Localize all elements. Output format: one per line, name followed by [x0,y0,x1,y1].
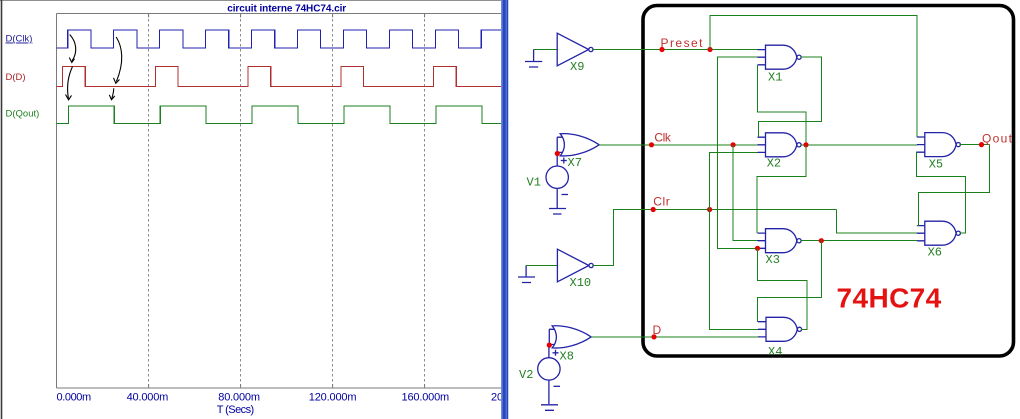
nand X6 [917,221,961,245]
wire Qout feedback down to X6 pin1 [917,145,990,226]
waveform D(D) red [57,66,502,86]
gridline 40m [148,14,150,388]
ground at X9 input [534,49,558,51]
svg-text:X9: X9 [570,60,584,74]
svg-text:V1: V1 [527,176,541,190]
svg-text:circuit interne 74HC74.cir: circuit interne 74HC74.cir [227,4,346,15]
window top border line [0,0,502,2]
svg-text:D(Clk): D(Clk) [6,34,33,45]
wire X3 out down to X4 pin1 [757,241,821,322]
svg-text:X8: X8 [560,350,574,364]
wire X5 out to Qout [960,144,990,146]
wire X3 out to X6 pin3 [800,240,916,242]
wire Clr jog to X6 pin2 [837,210,917,234]
svg-text:X7: X7 [568,156,582,170]
nand X3 [758,229,802,253]
plot border [57,14,502,389]
ground at V1 [549,209,566,215]
wire X7 out to Clk node [599,144,758,146]
svg-text:D(D): D(D) [6,72,26,83]
wire V2 to X8 inputs [549,329,550,345]
svg-text:Clr: Clr [653,195,670,209]
svg-text:160.000m: 160.000m [402,392,450,404]
wire X10 out to Clr line [593,210,836,266]
wire X3 pin3 down to X4 out [758,248,807,329]
or-gate X8 [549,326,591,348]
74HC74 outline box [643,6,1014,357]
annotation arrow 1 (Clk edge 1 to D) [69,35,75,63]
splitter bar [501,0,509,419]
wire X1 pin3 to X2 out [758,65,807,145]
wire X8 out to D node [591,336,758,338]
svg-text:X1: X1 [768,71,782,85]
svg-text:T (Secs): T (Secs) [217,404,255,416]
wire X1 pin2 net to X3 pin3 [718,57,758,248]
svg-text:74HC74: 74HC74 [837,283,942,314]
gridline 120m [332,14,334,388]
source V1 [546,154,568,209]
svg-text:D(Qout): D(Qout) [6,109,40,120]
svg-text:X3: X3 [766,253,780,267]
junction dot Clk a [649,142,654,147]
wire X2 out to X5 pin2 [800,144,916,146]
svg-text:X5: X5 [929,158,943,172]
junction dot Clr b [707,207,712,212]
annotation arrow 2 (D to Qout edge 1) [66,67,73,100]
svg-text:0.000m: 0.000m [57,392,92,404]
svg-text:40.000m: 40.000m [127,392,169,404]
ground at V2 [541,405,558,411]
or-gate X7 [557,134,599,156]
annotation arrow 4 (D to Qout edge 2) [109,88,115,99]
inverter X9 [557,33,593,66]
wire Preset riser to top and over to X5 pin1 [710,16,917,137]
junction dot X3 out [819,238,824,243]
top ticks [149,14,425,389]
svg-text:120.000m: 120.000m [309,392,357,404]
svg-text:X10: X10 [570,276,592,290]
window left border line [1,0,3,419]
junction dot X7 input [555,151,560,156]
junction dot Clr a [651,207,656,212]
junction dot X8 input [547,343,552,348]
annotation arrow 3 (Clk edge 2 to D) [114,37,122,83]
waveform D(Qout) green [57,106,502,124]
svg-text:V2: V2 [519,368,533,382]
nand X2 [758,133,802,157]
junction dot Preset b [707,47,712,52]
svg-text:80.000m: 80.000m [218,392,260,404]
wire X6 out up to X5 pin3 [916,152,965,233]
junction dot Clk b [731,142,736,147]
ground at X10 input [518,266,535,283]
junction dot Qout [979,142,984,147]
wire X2 pin3 to Clr [710,152,758,209]
junction dot D [651,334,656,339]
wire ground to X10 [526,265,557,267]
junction dot X3 pin3 [755,246,760,251]
wire V1 to X7 inputs [557,137,558,153]
svg-text:X2: X2 [767,157,781,171]
wire Clr riser down to X4 pin2 [710,210,758,330]
wire X9 out to Preset [593,49,758,51]
wire X2 out down to X3 pin1 [757,145,806,233]
wire Clk riser to X3 pin2 [733,145,757,241]
svg-text:X4: X4 [768,345,782,359]
wire X1 out feedback to X2 pin1 [758,57,821,137]
svg-text:Qout: Qout [982,132,1013,146]
waveform D(Clk) blue [57,30,502,48]
junction dot X2 out [803,142,808,147]
svg-text:Preset: Preset [661,36,704,50]
nand X1 [758,45,802,69]
inverter X10 [557,249,593,282]
source V2 [538,345,560,404]
nand X5 [917,133,961,157]
svg-text:Clk: Clk [654,131,672,145]
junction dot Preset a [659,47,664,52]
gridline 80m [240,14,242,388]
svg-text:X6: X6 [928,246,942,260]
nand X4 [758,317,802,341]
gridline 160m [424,14,426,388]
